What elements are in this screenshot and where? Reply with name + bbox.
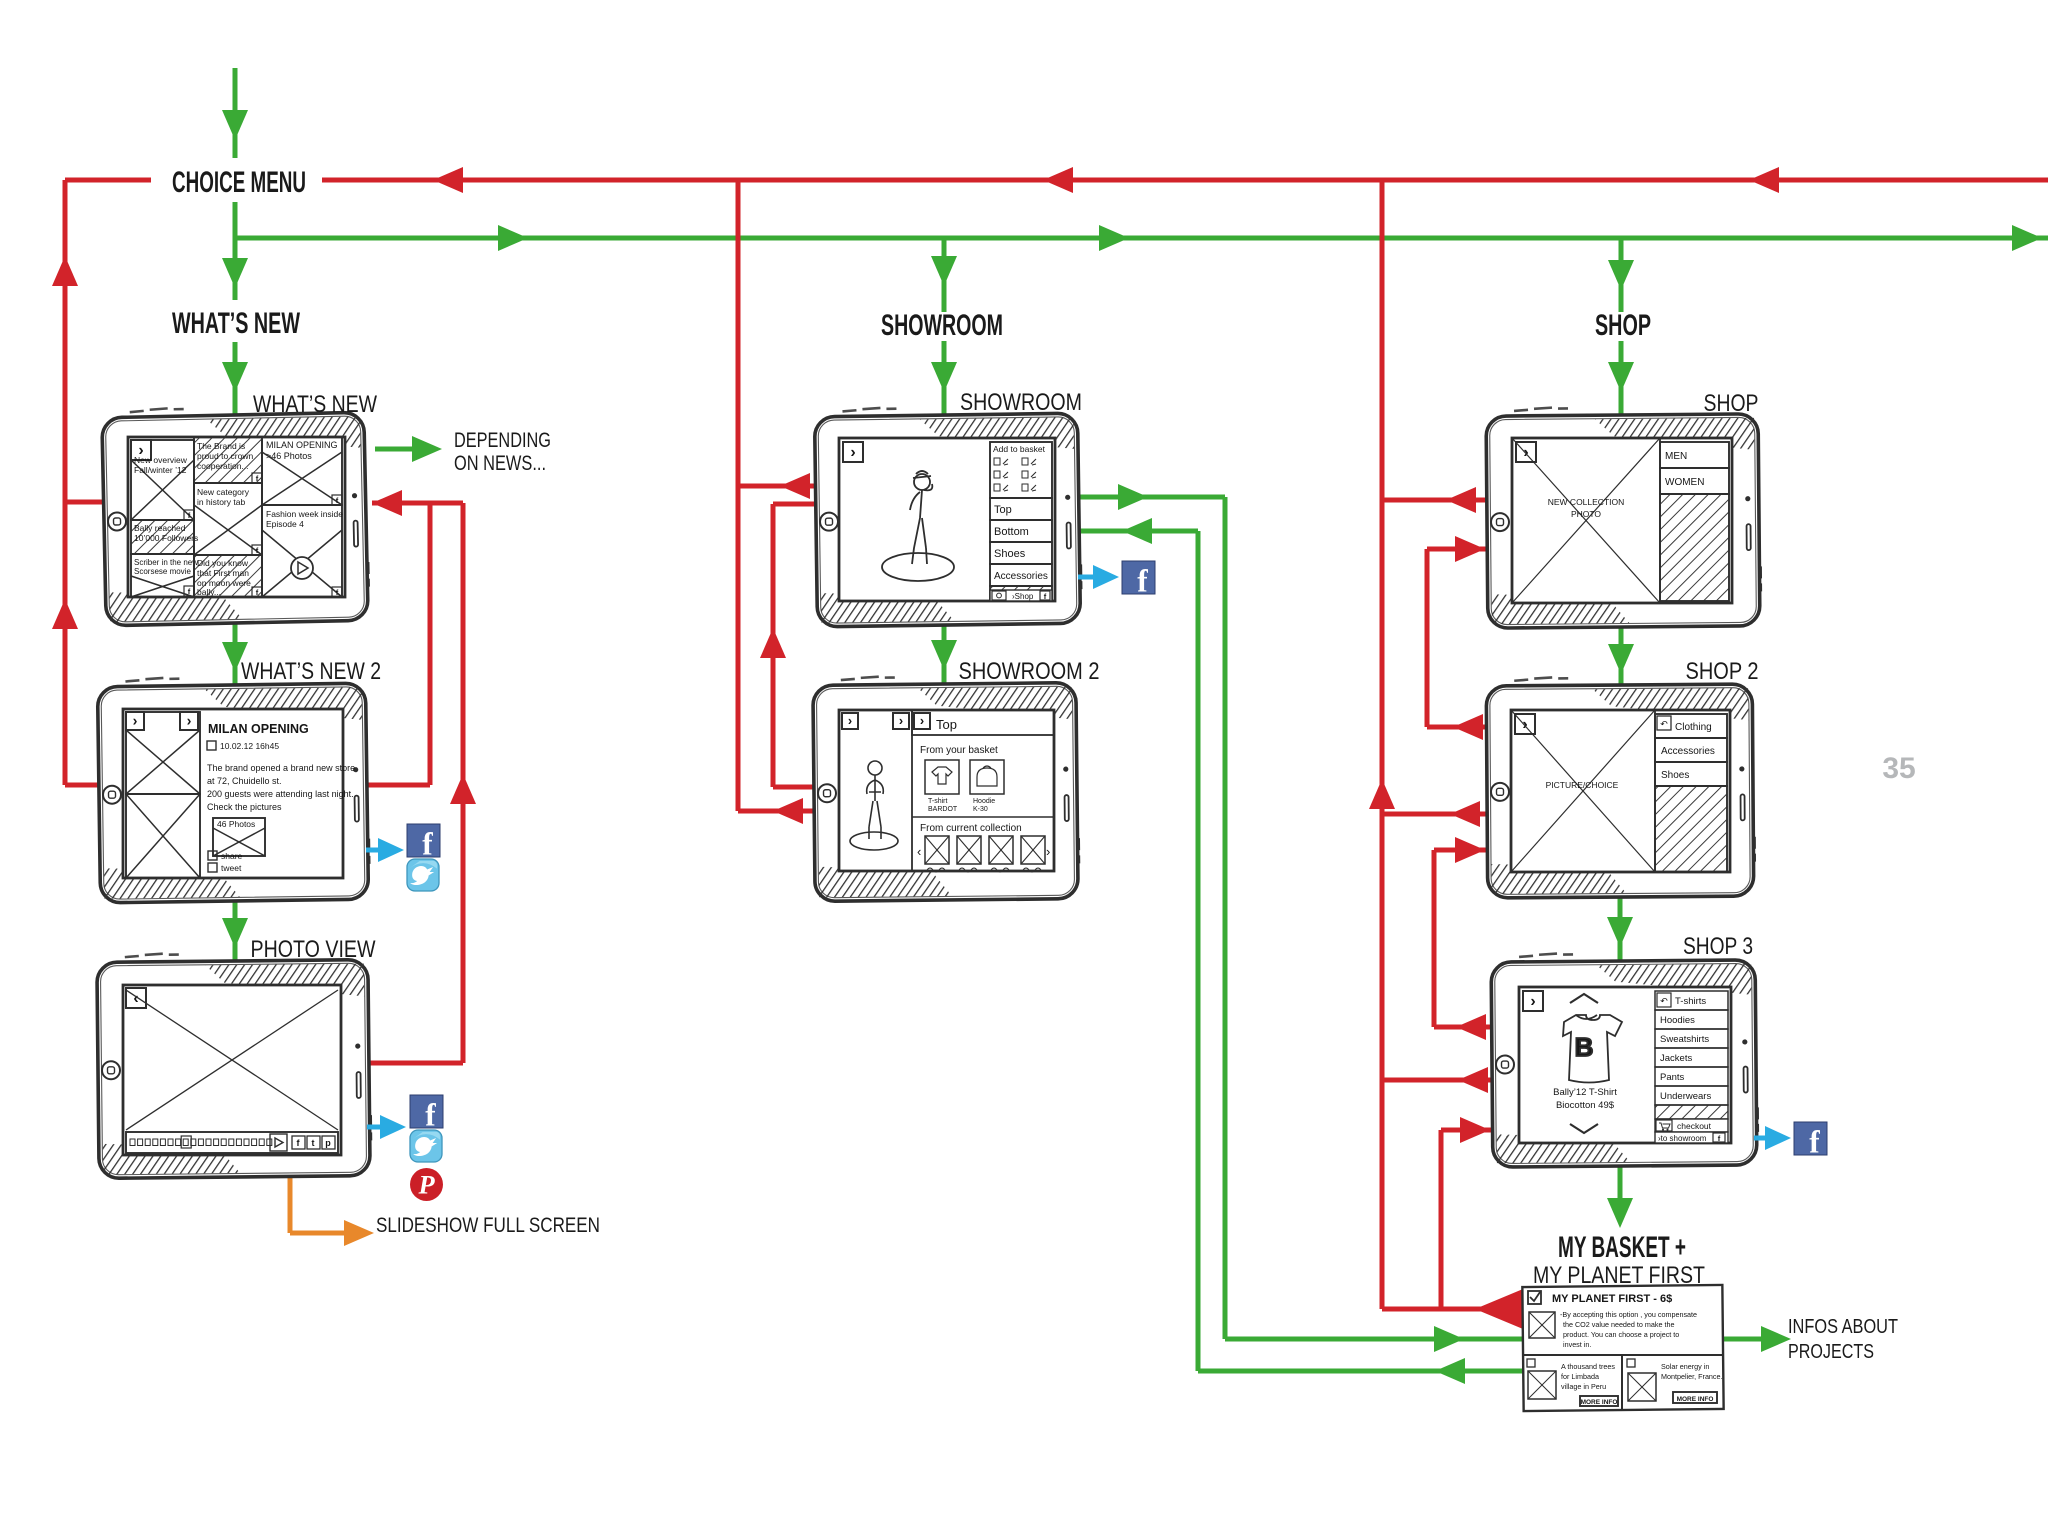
svg-text:B: B [1575,1032,1594,1062]
svg-text:↶: ↶ [1660,996,1668,1006]
wire: red return vertical SHOP column to CHOICE MENU [1369,180,1523,1329]
wire: red return loop PHOTO VIEW to WHATS NEW [362,503,476,1063]
svg-text:f: f [1809,1124,1820,1159]
wire: green arrow DEPENDING ON NEWS [375,436,442,462]
svg-text:Did you know: Did you know [197,558,249,568]
svg-text:f: f [1137,563,1148,598]
svg-text:t: t [312,1138,315,1148]
svg-text:›to showroom: ›to showroom [1658,1134,1707,1143]
svg-text:›: › [1046,844,1050,859]
svg-text:checkout: checkout [1677,1121,1712,1131]
svg-text:BARDOT: BARDOT [928,806,958,813]
svg-text:›: › [850,444,855,461]
svg-text:bally...: bally... [197,587,221,597]
wire: green arrow WHATS NEW 2 to PHOTO VIEW [222,902,248,962]
wire: red return vertical SHOWROOM to CHOICE MENU [738,180,820,824]
svg-text:Top: Top [994,504,1012,516]
svg-text:Bally reached: Bally reached [134,523,186,533]
svg-text:›: › [133,713,138,729]
svg-text:invest in.: invest in. [1563,1340,1591,1349]
svg-text:Underwears: Underwears [1660,1091,1711,1102]
svg-text:for Limbada: for Limbada [1561,1372,1599,1381]
svg-text:MY PLANET FIRST: MY PLANET FIRST [1533,1262,1705,1289]
svg-text:From current collection: From current collection [920,823,1022,834]
svg-text:product. You can choose a proj: product. You can choose a project to [1563,1330,1679,1339]
svg-text:share: share [221,851,243,861]
wire: red left return vertical to CHOICE MENU [52,180,110,785]
svg-text:Episode 4: Episode 4 [266,519,304,529]
svg-text:SHOWROOM 2: SHOWROOM 2 [959,658,1100,685]
icon facebook (showroom) [1122,561,1155,594]
svg-text:WHAT’S NEW: WHAT’S NEW [172,307,300,340]
svg-text:New category: New category [197,487,250,497]
svg-text:Fashion week inside: Fashion week inside [266,509,343,519]
icon facebook (shop 3) [1794,1122,1827,1155]
svg-text:↶: ↶ [1660,719,1668,729]
wire: red return loop SHOWROOM 2 to SHOWROOM [760,504,820,787]
wire: green vertical CHOICE MENU to WHATS NEW [222,202,248,418]
wire: red loop MY BASKET to SHOP 3 [1441,1117,1500,1309]
svg-text:The brand opened a brand new s: The brand opened a brand new store [207,763,355,773]
svg-text:at 72, Chuidello st.: at 72, Chuidello st. [207,776,282,786]
svg-text:35: 35 [1882,752,1915,785]
svg-text:Fall/winter ’12: Fall/winter ’12 [134,465,187,475]
svg-text:ON NEWS...: ON NEWS... [454,452,546,475]
svg-text:CHOICE MENU: CHOICE MENU [172,166,306,199]
wire: green vertical to SHOP [1608,238,1634,418]
svg-text:Clothing: Clothing [1675,722,1712,733]
svg-text:›: › [1530,993,1535,1010]
svg-text:NEW COLLECTION: NEW COLLECTION [1548,497,1625,507]
wire: red main horizontal return line [65,167,2048,193]
svg-text:SHOWROOM: SHOWROOM [881,309,1003,342]
tablet screen SHOWROOM 2 [813,675,1079,902]
svg-text:Top: Top [936,717,957,732]
svg-text:T-shirts: T-shirts [1675,996,1706,1007]
svg-text:SHOP 3: SHOP 3 [1683,933,1753,960]
svg-text:Bally’12 T-Shirt: Bally’12 T-Shirt [1553,1087,1617,1098]
icon twitter (photo view) [410,1130,442,1162]
svg-text:DEPENDING: DEPENDING [454,429,551,452]
svg-text:Shoes: Shoes [1661,770,1689,781]
svg-text:›Shop: ›Shop [1012,592,1034,601]
svg-text:f: f [425,1097,436,1132]
svg-text:200 guests were attending last: 200 guests were attending last night. [207,789,354,799]
svg-text:SHOP: SHOP [1595,309,1651,342]
wire: green arrow SHOP to SHOP 2 [1608,628,1634,686]
svg-text:Bottom: Bottom [994,526,1029,538]
tablet screen SHOWROOM [814,405,1081,627]
svg-text:WHAT’S NEW: WHAT’S NEW [253,391,377,418]
svg-text:A thousand trees: A thousand trees [1561,1362,1615,1371]
svg-text:proud to crown: proud to crown [197,451,253,461]
wire: blue arrow SHOWROOM to facebook [1078,565,1119,589]
svg-text:›: › [848,713,852,728]
svg-text:Pants: Pants [1660,1072,1685,1083]
tablet screen PHOTO VIEW [97,952,371,1179]
svg-text:MILAN OPENING: MILAN OPENING [208,722,309,736]
svg-text:MORE INFO: MORE INFO [1581,1399,1618,1406]
svg-text:village in Peru: village in Peru [1561,1382,1606,1391]
svg-text:46 Photos: 46 Photos [217,819,255,829]
wire: blue arrow WHATS NEW 2 to social icons [366,838,404,862]
svg-text:›: › [187,713,192,729]
tablet screen WHATS NEW 2 [97,675,369,903]
svg-text:Sweatshirts: Sweatshirts [1660,1034,1709,1045]
svg-text:SHOP: SHOP [1704,390,1759,417]
svg-text:PHOTO: PHOTO [1571,509,1601,519]
svg-text:Scorsese movie: Scorsese movie [134,567,191,576]
svg-text:PHOTO VIEW: PHOTO VIEW [251,936,376,963]
svg-text:Hoodies: Hoodies [1660,1015,1695,1026]
svg-text:›: › [920,713,924,728]
icon facebook (photo view) [410,1095,443,1128]
svg-text:in history tab: in history tab [197,497,245,507]
svg-text:New overview: New overview [134,455,188,465]
svg-text:From your basket: From your basket [920,745,998,756]
svg-text:tweet: tweet [221,863,242,873]
tablet screen SHOP [1486,406,1761,628]
svg-text:Shoes: Shoes [994,548,1026,560]
svg-text:10’000 Followers: 10’000 Followers [134,533,198,543]
svg-text:-By accepting this option , yo: -By accepting this option , you compensa… [1560,1310,1697,1319]
wire: red loop SHOP 2 to SHOP [1427,536,1495,740]
wire: green loop MY PLANET FIRST back to SHOWROOM [1070,518,1523,1384]
svg-text:MEN: MEN [1665,451,1687,462]
svg-text:MILAN OPENING: MILAN OPENING [266,440,338,450]
svg-text:f: f [422,826,433,861]
svg-text:cooperation...: cooperation... [197,461,249,471]
icon twitter (whats new 2) [407,859,439,891]
svg-text:MORE INFO: MORE INFO [1677,1396,1714,1403]
wire: red return loop WHATS NEW 2 to WHATS NEW [360,490,463,785]
wire: blue arrow PHOTO VIEW to social icons [367,1115,406,1139]
svg-text:Jackets: Jackets [1660,1053,1692,1064]
svg-text:that First man: that First man [197,568,249,578]
svg-text:PICTURE/CHOICE: PICTURE/CHOICE [1546,780,1619,790]
tablet screen WHATS NEW [102,404,369,625]
svg-text:WOMEN: WOMEN [1665,477,1704,488]
wire: blue arrow SHOP 3 to facebook [1754,1126,1791,1150]
wire: green loop SHOWROOM to MY PLANET FIRST [1070,484,1523,1352]
svg-text:Check the pictures: Check the pictures [207,802,282,812]
svg-text:SHOP 2: SHOP 2 [1686,658,1759,685]
svg-text:WHAT’S NEW 2: WHAT’S NEW 2 [241,658,381,685]
tablet screen SHOP 3 [1491,952,1758,1167]
svg-text:Hoodie: Hoodie [973,798,995,805]
wire: green arrow SHOWROOM to SHOWROOM 2 [931,626,957,686]
svg-text:10.02.12 16h45: 10.02.12 16h45 [220,741,279,751]
wire: green arrow WHATS NEW to WHATS NEW 2 [222,624,248,686]
svg-text:INFOS ABOUT: INFOS ABOUT [1788,1316,1898,1338]
icon pinterest (photo view) [410,1168,443,1201]
svg-text:K-30: K-30 [973,806,988,813]
wire: green vertical to SHOWROOM [931,238,957,418]
svg-text:T-shirt: T-shirt [928,798,948,805]
svg-text:p: p [325,1138,331,1148]
wire: green arrow SHOP 2 to SHOP 3 [1607,898,1633,962]
svg-text:‹: ‹ [917,844,921,859]
svg-text:Biocotton 49$: Biocotton 49$ [1556,1100,1615,1111]
wire: red loop SHOP 3 to SHOP 2 [1434,837,1500,1040]
svg-text:SLIDESHOW FULL SCREEN: SLIDESHOW FULL SCREEN [376,1214,600,1237]
svg-text:>46 Photos: >46 Photos [266,451,312,461]
svg-text:The Brand is: The Brand is [197,441,245,451]
svg-text:Solar energy in: Solar energy in [1661,1362,1709,1371]
wire: green entry arrow into CHOICE MENU [222,68,248,158]
wire: green arrow SHOP 3 to MY BASKET [1607,1167,1633,1228]
wire: orange arrow SLIDESHOW FULL SCREEN [290,1150,374,1246]
svg-text:Accessories: Accessories [994,571,1048,582]
icon facebook (whats new 2) [407,824,440,857]
svg-text:MY PLANET FIRST - 6$: MY PLANET FIRST - 6$ [1552,1293,1672,1305]
svg-text:SHOWROOM: SHOWROOM [960,389,1082,416]
svg-text:MY BASKET +: MY BASKET + [1558,1231,1686,1264]
wire: green main horizontal distribution line [235,225,2048,251]
svg-text:Scriber in the new: Scriber in the new [134,558,198,567]
my planet first panel [1522,1285,1723,1411]
svg-text:the CO2 value needed to make t: the CO2 value needed to make the [1563,1320,1674,1329]
svg-text:Montpelier, France.: Montpelier, France. [1661,1372,1723,1381]
svg-text:P: P [417,1170,435,1200]
tablet screen SHOP 2 [1486,676,1755,898]
svg-text:Accessories: Accessories [1661,746,1715,757]
wire: green arrow MY PLANET FIRST to INFOS ABOUT PROJECTS [1700,1326,1791,1352]
svg-text:›: › [899,713,903,728]
svg-text:PROJECTS: PROJECTS [1788,1341,1874,1363]
svg-text:Add to basket: Add to basket [993,444,1046,454]
